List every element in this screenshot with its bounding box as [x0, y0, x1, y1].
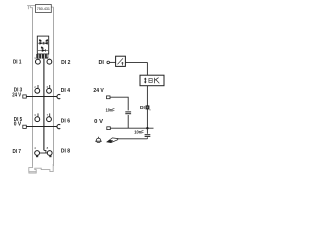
- svg-text:2: 2: [34, 85, 36, 89]
- svg-text:0 V: 0 V: [94, 119, 103, 125]
- rail contact wedge: [107, 138, 118, 143]
- capacitor C2 10nF: [145, 134, 151, 136]
- capacitor C1 10nF: [125, 111, 131, 113]
- status LED symbol: [146, 106, 149, 109]
- svg-text:10nF: 10nF: [106, 107, 115, 112]
- terminal 5 circle: [47, 59, 52, 64]
- svg-text:DI: DI: [140, 105, 145, 110]
- filter box U1: [116, 56, 126, 66]
- terminal 7 circle: [47, 117, 52, 122]
- 24V plug contact: [23, 95, 27, 98]
- center bus line: [43, 59, 45, 151]
- 0V plug contact: [23, 125, 27, 128]
- part label box 750-431: [36, 5, 52, 13]
- 0V power jumper rail: [26, 126, 57, 128]
- LED D2: [44, 40, 48, 45]
- row3 stubs: [37, 113, 39, 117]
- svg-text:750-431: 750-431: [37, 7, 50, 11]
- filter t label: [121, 62, 123, 65]
- 0V plug: [107, 127, 111, 130]
- bus symbol K: [155, 78, 160, 84]
- terminal 8 circle: [47, 151, 52, 156]
- row2 stubs: [37, 85, 39, 89]
- input terminal circle: [107, 61, 110, 64]
- svg-text:x: x: [149, 107, 151, 111]
- wire to C2: [146, 128, 148, 134]
- row1 stub left: [37, 59, 39, 60]
- svg-text:4: 4: [34, 146, 36, 150]
- clamp slot left: [36, 155, 38, 157]
- svg-text:DI 6: DI 6: [61, 118, 70, 124]
- svg-text:DI 2: DI 2: [61, 60, 70, 66]
- LED box: [37, 36, 48, 54]
- 24V wire: [110, 97, 128, 110]
- contact comb hatched block: [36, 54, 48, 59]
- svg-text:10nF: 10nF: [134, 129, 144, 134]
- earth symbol circle: [96, 138, 100, 142]
- filter slope symbol: [118, 58, 124, 64]
- svg-text:24 V: 24 V: [93, 88, 104, 94]
- top latch tab: [27, 6, 53, 10]
- 24V plug: [107, 96, 111, 99]
- svg-text:DI: DI: [99, 60, 105, 66]
- module body left edge: [32, 8, 34, 166]
- earth symbol stem: [98, 137, 100, 139]
- junction node: [146, 127, 148, 129]
- svg-text:DI 7: DI 7: [13, 149, 22, 155]
- 24V spring contact hook: [57, 95, 60, 99]
- earth symbol bar: [95, 140, 102, 142]
- bus symbol arrow: [144, 78, 147, 84]
- row1 stub right: [49, 59, 51, 60]
- svg-text:0 V: 0 V: [14, 122, 22, 128]
- svg-text:24 V: 24 V: [12, 92, 21, 98]
- wire filter to elbow: [125, 61, 147, 63]
- svg-text:DI 8: DI 8: [61, 148, 70, 154]
- row4 bus end jog: [44, 150, 46, 153]
- 0V spring contact hook: [57, 125, 60, 129]
- bus symbol register: [149, 78, 152, 82]
- terminal 1 circle: [36, 59, 41, 64]
- 24V power jumper rail: [26, 96, 57, 98]
- svg-text:8: 8: [47, 146, 49, 150]
- svg-text:3: 3: [34, 113, 36, 117]
- LED D1: [40, 40, 44, 45]
- wire to filter: [110, 61, 116, 63]
- DIN rail foot: [29, 164, 53, 173]
- terminal 4 circle: [35, 151, 40, 156]
- LED line 2: [38, 49, 48, 51]
- earth wire: [117, 138, 147, 140]
- wire down to electronics: [146, 62, 148, 75]
- svg-text:DI 4: DI 4: [61, 88, 70, 94]
- terminal 2 circle: [35, 88, 40, 93]
- electronics bus box U2: [140, 75, 164, 86]
- wire down from electronics: [146, 86, 148, 129]
- svg-text:DI 1: DI 1: [13, 60, 22, 66]
- terminal 6 circle: [47, 88, 52, 93]
- LED D3: [41, 47, 45, 52]
- terminal 3 circle: [35, 117, 40, 122]
- svg-text:1: 1: [34, 56, 36, 60]
- 0V wire: [110, 127, 153, 129]
- module body right edge: [53, 7, 55, 166]
- LED pair line: [38, 42, 48, 44]
- clamp slot right: [49, 155, 51, 157]
- row4 connecting wire: [39, 152, 47, 154]
